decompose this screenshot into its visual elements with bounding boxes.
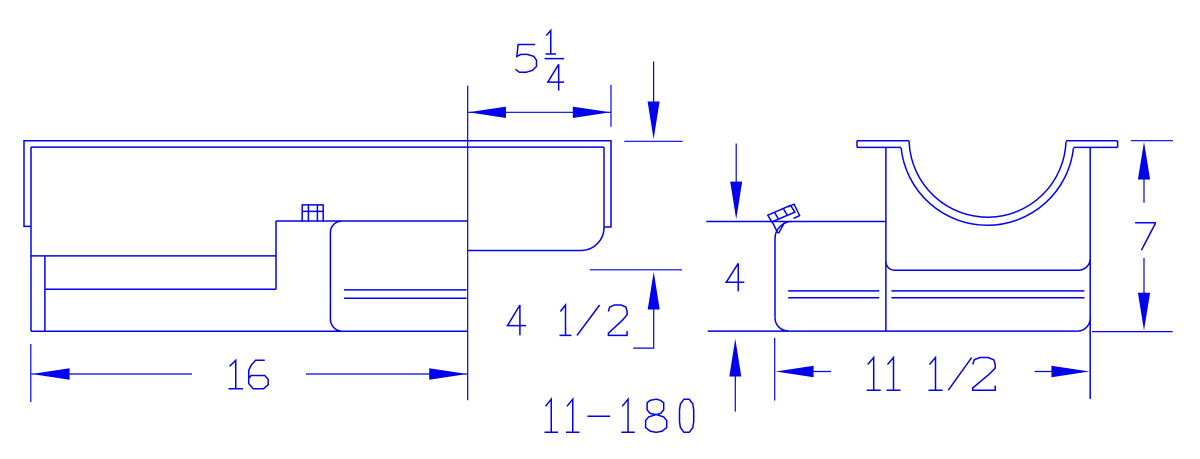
flange left tab underside [857, 146, 901, 148]
arrowhead 7 down [1138, 293, 1150, 331]
leader line 4 1/2 up arrow with elbow [633, 306, 654, 348]
leader line 4 up arrow [734, 373, 736, 412]
rail line 1 deep [891, 290, 1084, 292]
text fraction 4 [547, 64, 564, 90]
interior bottom line [894, 269, 1078, 271]
arrowhead 11 1/2 right [1051, 366, 1089, 377]
arrowhead 4 1/2 up [648, 272, 660, 310]
bottom line with extension [708, 330, 1078, 332]
front rail line [31, 255, 276, 257]
text 11 1/2 digit 1 [929, 358, 943, 391]
extension line 11 1/2 left [774, 338, 776, 401]
shallow top-left rounded corner [775, 222, 792, 239]
fraction bar [545, 58, 565, 60]
arrowhead 4 down [730, 182, 742, 220]
text 11 1/2 digit 1 [887, 358, 901, 391]
interior bottom line right corner [1079, 259, 1091, 271]
pan right end wall [603, 147, 605, 227]
shallow section top line with extension [706, 221, 886, 223]
drain plug tilted body [768, 205, 795, 222]
arrowhead 4 up [729, 339, 741, 377]
extension line 4 1/2 top (rim extended) [624, 140, 682, 142]
text 11 1/2 slash [948, 358, 971, 391]
text 4 1/2 digit 2 [608, 305, 627, 335]
rail line 1 shallow [788, 290, 879, 292]
text 16 digit 1 [229, 360, 243, 388]
sump front edge [330, 221, 342, 331]
pan bottom line [31, 330, 468, 332]
deep bottom-right rounded corner [1077, 318, 1090, 331]
arrowhead 5 1/4 right [573, 107, 611, 118]
part number digit 1 [566, 399, 580, 432]
text 11 1/2 digit 2 [973, 358, 995, 391]
extension line right end 5 1/4 [610, 85, 612, 127]
sump interior line 1 [344, 289, 467, 291]
flange left tab cap [856, 141, 858, 148]
drain plug cap [788, 204, 800, 218]
flange right tab top [1066, 140, 1118, 142]
text fraction 1 [546, 31, 557, 55]
arrowhead 7 up [1138, 142, 1150, 180]
rail line 2 shallow [788, 297, 879, 299]
arrowhead 16 right [429, 368, 467, 379]
drain plug side view [302, 205, 323, 222]
text 4 1/2 digit 4 [507, 305, 527, 335]
drain plug below surface [772, 222, 784, 234]
drain plug thread line 1 [775, 212, 779, 219]
text 4 1/2 digit 1 [560, 305, 572, 335]
interior bottom line left corner [886, 262, 895, 271]
sump interior line 2 [344, 297, 467, 299]
flange right tab cap [1117, 141, 1119, 148]
text 11 1/2 digit 1 [867, 358, 881, 391]
part number dash [587, 415, 610, 417]
right wall and extension [1089, 147, 1091, 399]
leader line 4 1/2 down arrow [653, 62, 655, 105]
pan rim outer lip (side view) [24, 141, 611, 227]
extension line 4 1/2 bottom [590, 269, 682, 271]
drain plug thread line 2 [783, 209, 787, 216]
text 16 digit 6 [249, 360, 269, 388]
lower rail line [45, 288, 276, 290]
pan shallow bottom line [468, 250, 581, 252]
part number digit 1 [621, 399, 635, 432]
rail inner wall [44, 256, 46, 331]
extension line 7 top [1131, 140, 1173, 142]
pan shallow end rounded corner [581, 228, 604, 251]
extension line 16 left [30, 344, 32, 402]
U channel outer arc [901, 148, 1073, 225]
extension line 7 bottom [1092, 331, 1173, 333]
text 7 [1135, 223, 1155, 250]
part number digit 0 [680, 399, 694, 432]
arrowhead 5 1/4 left [468, 107, 506, 118]
U channel inner arc [909, 141, 1066, 217]
dim line 5 1/4 [468, 111, 610, 113]
text 4 right view [725, 263, 744, 291]
shallow left wall [774, 239, 776, 318]
part number 11-180 digit 1 [545, 399, 559, 432]
dim line 7 lower [1143, 258, 1145, 296]
arrowhead 4 1/2 down [648, 102, 660, 140]
leader line 4 down arrow [735, 144, 737, 186]
text 4 1/2 slash [577, 305, 600, 335]
sump top line [276, 220, 468, 222]
dim line 16 left segment [32, 373, 192, 375]
shallow bottom-left rounded corner [775, 318, 788, 331]
middle wall [885, 147, 887, 331]
arrowhead 11 1/2 left [776, 366, 814, 377]
pan rim inner top line [31, 146, 604, 148]
extension line sump right / dim datum [467, 86, 469, 401]
rail line 2 deep [891, 297, 1084, 299]
dim line 11 1/2 right tail [1035, 371, 1052, 373]
flange right tab underside [1074, 146, 1118, 148]
dim line 7 upper [1143, 176, 1145, 203]
flange left tab top [857, 140, 909, 142]
step vertical [275, 221, 277, 289]
dim line 16 right segment [306, 373, 467, 375]
text 5 [516, 45, 537, 73]
arrowhead 16 left [32, 368, 70, 379]
dim line 11 1/2 left tail [813, 371, 831, 373]
part number digit 8 [646, 399, 667, 432]
pan left wall [30, 147, 32, 331]
